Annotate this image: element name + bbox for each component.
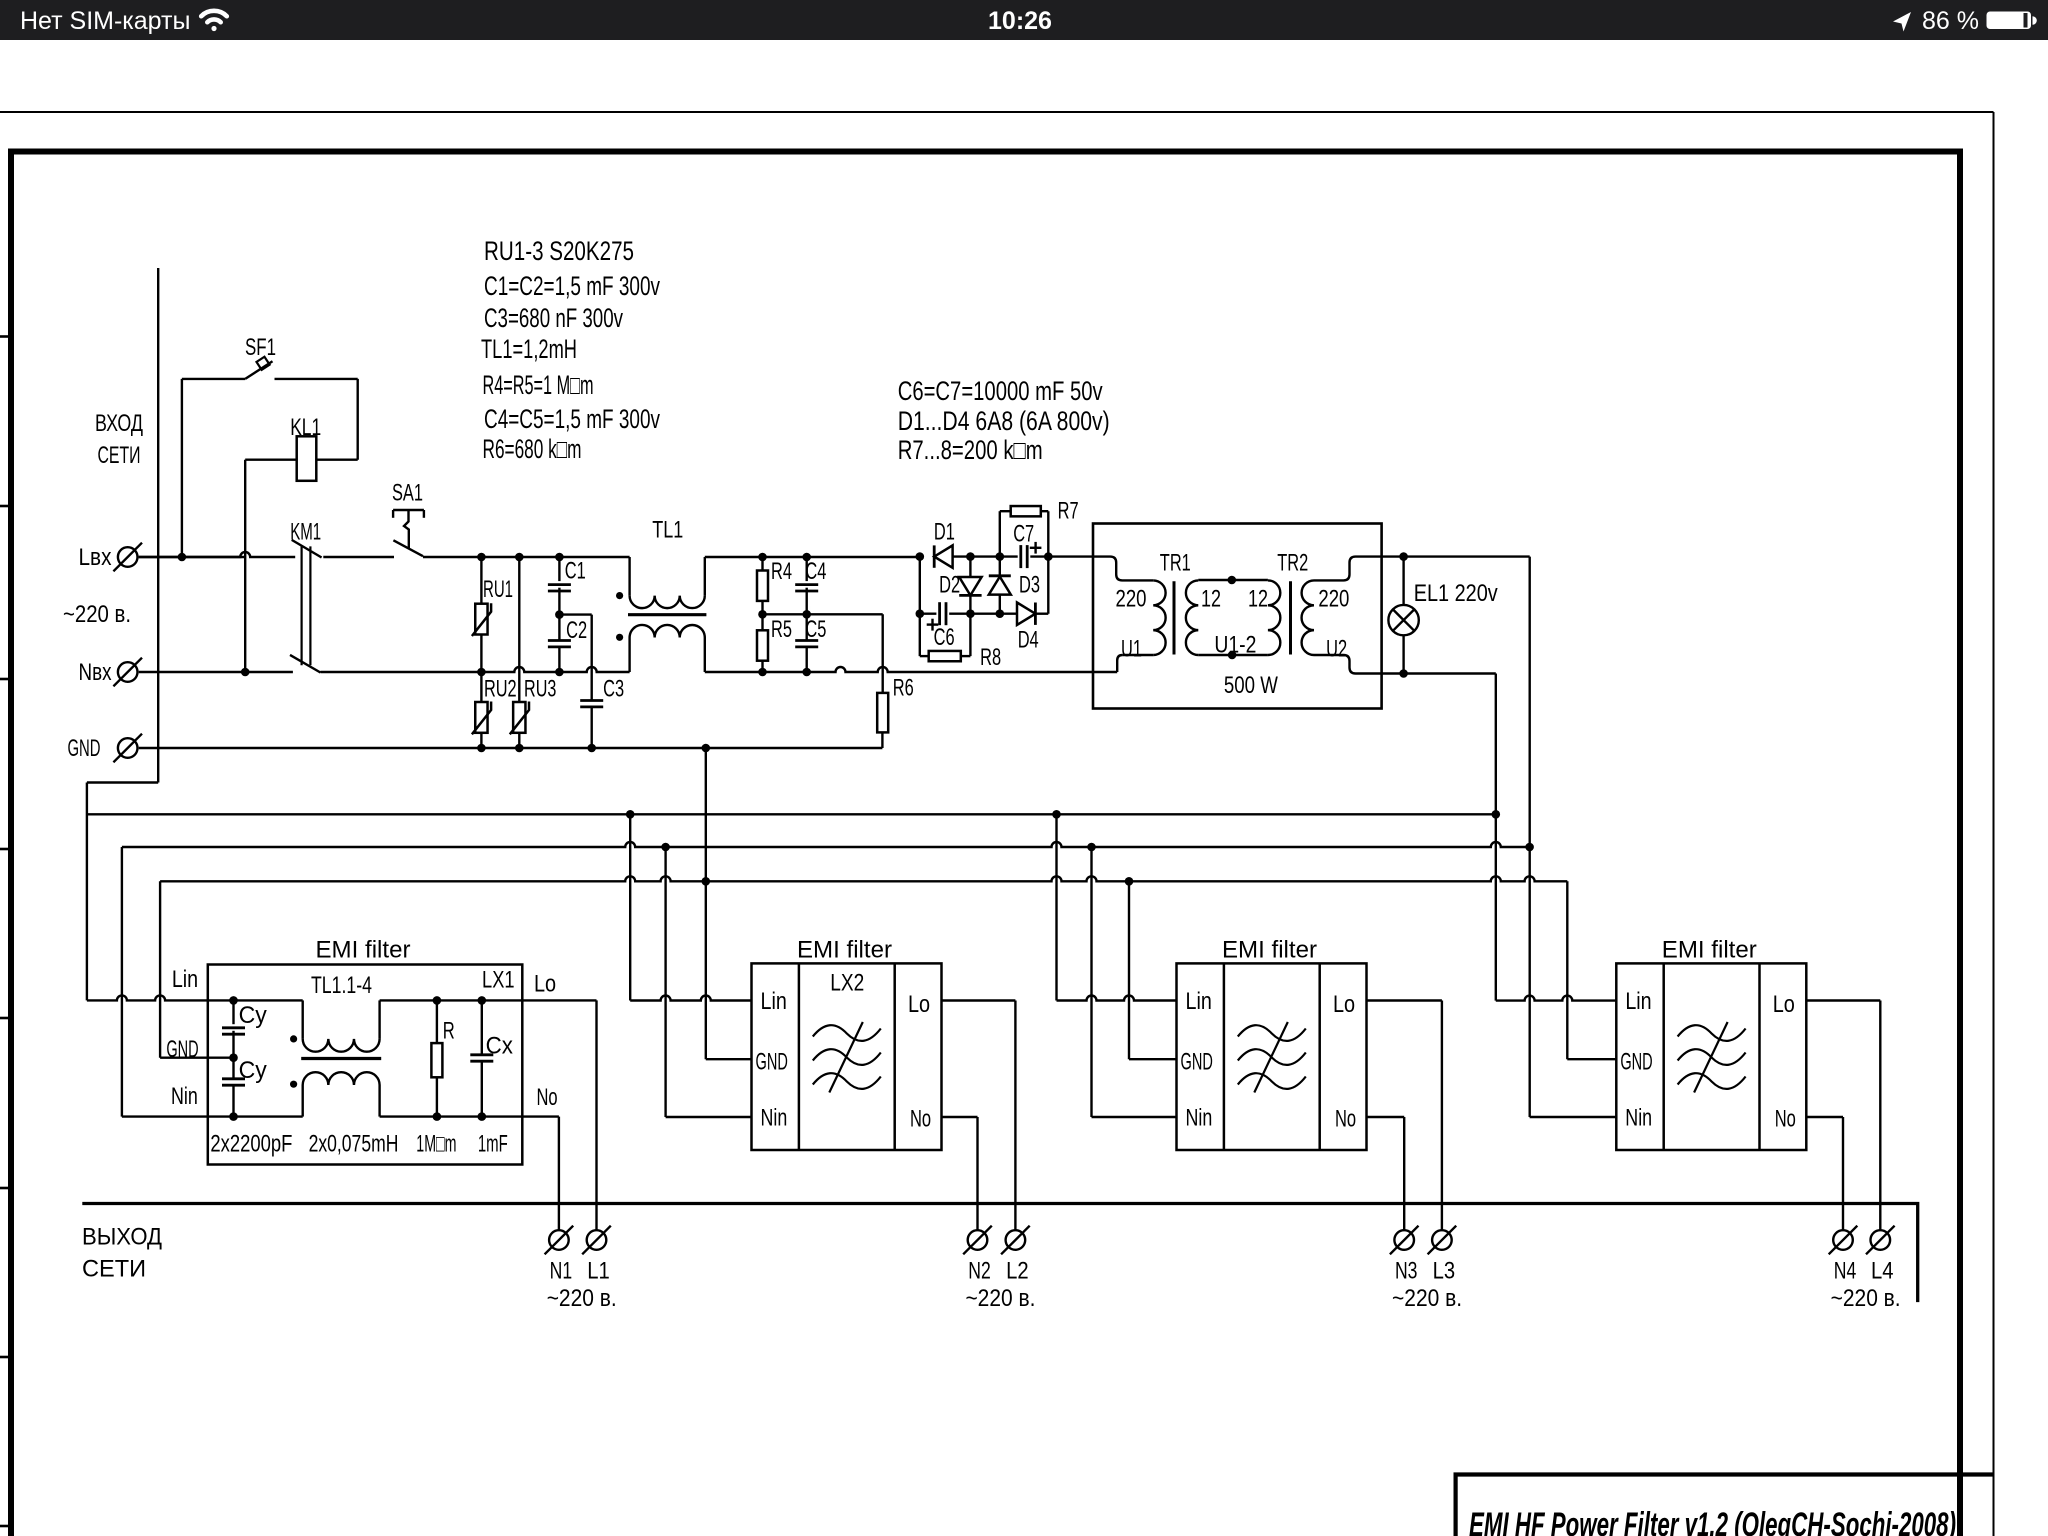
svg-text:C3=680 nF 300v: C3=680 nF 300v bbox=[484, 303, 623, 333]
svg-text:12: 12 bbox=[1248, 585, 1268, 612]
svg-text:EMI filter: EMI filter bbox=[1662, 937, 1757, 964]
svg-text:L4: L4 bbox=[1871, 1258, 1894, 1285]
svg-text:Nвх: Nвх bbox=[79, 659, 112, 686]
svg-text:U2: U2 bbox=[1326, 636, 1347, 663]
svg-text:R7...8=200 k□m: R7...8=200 k□m bbox=[898, 435, 1043, 465]
svg-text:R4: R4 bbox=[771, 558, 792, 585]
svg-text:SA1: SA1 bbox=[392, 480, 423, 507]
svg-text:TL1=1,2mH: TL1=1,2mH bbox=[481, 334, 577, 364]
svg-text:TL1.1-4: TL1.1-4 bbox=[311, 972, 372, 999]
svg-text:220: 220 bbox=[1116, 585, 1147, 612]
svg-text:L2: L2 bbox=[1006, 1258, 1029, 1285]
svg-text:D1...D4 6A8 (6A 800v): D1...D4 6A8 (6A 800v) bbox=[898, 406, 1110, 436]
svg-text:EMI HF Power Filter v1.2 (Oleg: EMI HF Power Filter v1.2 (OlegCH-Sochi-2… bbox=[1469, 1506, 1956, 1536]
svg-text:C6=C7=10000 mF 50v: C6=C7=10000 mF 50v bbox=[898, 376, 1103, 406]
svg-text:L1: L1 bbox=[587, 1258, 610, 1285]
svg-text:C2: C2 bbox=[566, 617, 587, 644]
svg-text:Cx: Cx bbox=[486, 1033, 513, 1060]
svg-text:C6: C6 bbox=[934, 624, 955, 651]
svg-text:TR1: TR1 bbox=[1160, 549, 1191, 576]
svg-text:R5: R5 bbox=[771, 616, 792, 643]
svg-text:LX2: LX2 bbox=[830, 970, 864, 997]
svg-text:C7: C7 bbox=[1013, 521, 1034, 548]
svg-text:C5: C5 bbox=[805, 616, 826, 643]
svg-text:GND: GND bbox=[1181, 1049, 1213, 1076]
svg-text:Lвх: Lвх bbox=[79, 544, 112, 571]
svg-text:R7: R7 bbox=[1058, 498, 1079, 525]
svg-text:~220 в.: ~220 в. bbox=[1392, 1285, 1462, 1312]
svg-text:Нет SIM-карты: Нет SIM-карты bbox=[20, 7, 190, 35]
svg-text:1M□m: 1M□m bbox=[416, 1131, 456, 1158]
svg-text:RU2: RU2 bbox=[484, 676, 517, 703]
svg-text:R: R bbox=[443, 1018, 455, 1045]
svg-text:Lo: Lo bbox=[534, 971, 556, 998]
svg-text:ВЫХОД: ВЫХОД bbox=[82, 1224, 162, 1251]
svg-text:N3: N3 bbox=[1395, 1258, 1418, 1285]
svg-text:N1: N1 bbox=[550, 1258, 573, 1285]
svg-text:R6=680 k□m: R6=680 k□m bbox=[483, 434, 582, 464]
svg-text:No: No bbox=[1775, 1106, 1796, 1133]
svg-text:Cy: Cy bbox=[239, 1002, 267, 1029]
svg-text:Nin: Nin bbox=[1186, 1105, 1213, 1132]
svg-text:Lo: Lo bbox=[1773, 991, 1795, 1018]
svg-text:2x2200pF: 2x2200pF bbox=[210, 1131, 292, 1158]
svg-text:L3: L3 bbox=[1433, 1258, 1456, 1285]
svg-text:Cy: Cy bbox=[239, 1057, 267, 1084]
svg-text:Lin: Lin bbox=[1186, 988, 1212, 1015]
svg-text:~220 в.: ~220 в. bbox=[965, 1285, 1035, 1312]
svg-text:EMI filter: EMI filter bbox=[1222, 937, 1317, 964]
svg-text:TL1: TL1 bbox=[652, 517, 683, 544]
svg-text:86 %: 86 % bbox=[1922, 7, 1979, 35]
svg-text:No: No bbox=[536, 1084, 557, 1111]
svg-text:D1: D1 bbox=[934, 519, 955, 546]
svg-text:Lin: Lin bbox=[172, 966, 198, 993]
svg-text:Nin: Nin bbox=[171, 1083, 198, 1110]
svg-text:~220 в.: ~220 в. bbox=[1831, 1285, 1901, 1312]
svg-text:~220 в.: ~220 в. bbox=[547, 1285, 617, 1312]
svg-text:D3: D3 bbox=[1019, 571, 1040, 598]
svg-text:C1=C2=1,5 mF 300v: C1=C2=1,5 mF 300v bbox=[484, 271, 660, 301]
svg-text:TR2: TR2 bbox=[1277, 549, 1308, 576]
svg-text:Nin: Nin bbox=[761, 1105, 788, 1132]
svg-text:GND: GND bbox=[756, 1049, 788, 1076]
svg-text:N2: N2 bbox=[968, 1258, 991, 1285]
svg-text:GND: GND bbox=[68, 735, 101, 762]
svg-text:No: No bbox=[1335, 1106, 1356, 1133]
svg-text:Lo: Lo bbox=[908, 991, 930, 1018]
svg-text:LX1: LX1 bbox=[482, 967, 515, 994]
svg-text:ВХОД: ВХОД bbox=[95, 410, 143, 437]
svg-text:СЕТИ: СЕТИ bbox=[98, 442, 141, 469]
svg-text:No: No bbox=[910, 1106, 931, 1133]
svg-text:~220 в.: ~220 в. bbox=[63, 601, 131, 628]
svg-text:C4: C4 bbox=[805, 558, 826, 585]
svg-text:10:26: 10:26 bbox=[988, 7, 1052, 35]
svg-text:RU3: RU3 bbox=[524, 676, 556, 703]
svg-text:EMI filter: EMI filter bbox=[316, 937, 411, 964]
svg-text:C3: C3 bbox=[603, 676, 624, 703]
svg-text:Lin: Lin bbox=[1625, 988, 1651, 1015]
svg-text:R6: R6 bbox=[893, 674, 914, 701]
svg-text:C1: C1 bbox=[565, 558, 586, 585]
svg-text:D2: D2 bbox=[939, 571, 960, 598]
svg-text:EMI filter: EMI filter bbox=[797, 937, 892, 964]
svg-text:2x0,075mH: 2x0,075mH bbox=[309, 1131, 399, 1158]
svg-text:Lo: Lo bbox=[1333, 991, 1355, 1018]
svg-text:Nin: Nin bbox=[1625, 1105, 1652, 1132]
svg-text:RU1-3 S20K275: RU1-3 S20K275 bbox=[484, 236, 634, 266]
svg-text:СЕТИ: СЕТИ bbox=[82, 1256, 146, 1283]
svg-text:12: 12 bbox=[1201, 585, 1221, 612]
svg-text:1mF: 1mF bbox=[478, 1131, 508, 1158]
svg-text:C4=C5=1,5 mF 300v: C4=C5=1,5 mF 300v bbox=[484, 404, 660, 434]
svg-text:RU1: RU1 bbox=[483, 576, 513, 603]
svg-text:500 W: 500 W bbox=[1224, 672, 1278, 699]
svg-text:R4=R5=1 M□m: R4=R5=1 M□m bbox=[483, 370, 594, 400]
svg-text:GND: GND bbox=[166, 1036, 198, 1063]
svg-text:D4: D4 bbox=[1018, 627, 1039, 654]
svg-text:220: 220 bbox=[1318, 585, 1349, 612]
svg-text:SF1: SF1 bbox=[245, 334, 276, 361]
svg-text:Lin: Lin bbox=[761, 988, 787, 1015]
svg-text:R8: R8 bbox=[980, 644, 1001, 671]
svg-text:EL1 220v: EL1 220v bbox=[1414, 580, 1498, 607]
svg-text:U1: U1 bbox=[1121, 636, 1142, 663]
svg-text:N4: N4 bbox=[1834, 1258, 1857, 1285]
svg-text:GND: GND bbox=[1620, 1049, 1652, 1076]
